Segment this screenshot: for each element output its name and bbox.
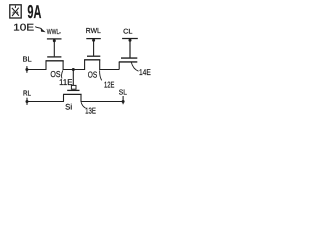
- wire Q2 source lead: [84, 60, 86, 70]
- node CL terminal bar: [122, 38, 138, 40]
- capacitor C1 top plate: [121, 57, 137, 59]
- svg-text:CL: CL: [123, 29, 133, 36]
- wire RL to Q3: [27, 101, 64, 103]
- node RWL junction dot: [92, 39, 95, 42]
- transistor Q3 channel: [63, 93, 82, 95]
- node WWL junction dot: [53, 39, 56, 42]
- transistor Q1 gate bar: [47, 56, 61, 58]
- wire Q1 source lead: [45, 61, 47, 70]
- node BL junction dot: [25, 68, 28, 71]
- transistor Q1 channel: [46, 60, 64, 62]
- transistor Q2 channel: [84, 59, 100, 61]
- node RL junction dot: [26, 100, 29, 103]
- svg-text:BL: BL: [23, 55, 32, 64]
- leader line 12E: [100, 70, 102, 80]
- wire WWL lead: [53, 39, 55, 57]
- wire RL terminal tick: [26, 98, 28, 105]
- node SL junction dot: [122, 100, 125, 103]
- wire capacitor riser: [118, 62, 120, 70]
- wire Q2 to capacitor: [99, 69, 119, 71]
- wire CL lead: [129, 39, 131, 59]
- node WWL terminal bar: [47, 38, 62, 40]
- leader line 10E arrow: [35, 27, 41, 29]
- svg-text:WWL: WWL: [47, 27, 60, 36]
- node gate contact square: [71, 85, 76, 89]
- wire BL terminal tick: [26, 66, 28, 73]
- svg-text:Si: Si: [65, 102, 72, 111]
- leader line 14E: [131, 62, 138, 71]
- svg-text:OS: OS: [88, 69, 98, 79]
- svg-text:12E: 12E: [104, 79, 115, 89]
- svg-text:SL: SL: [119, 87, 127, 96]
- svg-text:RL: RL: [23, 89, 31, 98]
- wire RWL lead: [93, 39, 95, 56]
- wire Q2 drain lead: [99, 60, 101, 70]
- wire BL to Q1: [27, 69, 47, 71]
- svg-text:10E: 10E: [13, 23, 35, 34]
- svg-text:13E: 13E: [85, 105, 96, 115]
- wire storage node vertical: [72, 70, 74, 86]
- leader line 11E: [61, 70, 62, 78]
- svg-text:11E: 11E: [59, 77, 73, 87]
- speck after WWL: [59, 32, 60, 33]
- wire SL terminal tick: [122, 96, 124, 104]
- capacitor C1 bottom plate: [119, 61, 138, 63]
- svg-text:RWL: RWL: [86, 26, 101, 35]
- node storage junction dot: [72, 68, 75, 71]
- wire Q3 to SL: [81, 101, 124, 103]
- transistor Q3 gate bar: [67, 89, 79, 91]
- node RWL terminal bar: [86, 38, 101, 40]
- wire Q3 source lead: [63, 94, 65, 101]
- svg-text:9A: 9A: [27, 1, 41, 22]
- wire Q3 drain lead: [80, 94, 82, 101]
- wire Q1 drain lead: [62, 61, 64, 70]
- leader line 13E: [81, 102, 86, 108]
- wire Q1 to Q2 storage node: [63, 69, 86, 71]
- figure title 図 glyph box: [10, 5, 21, 18]
- svg-text:14E: 14E: [139, 67, 151, 77]
- transistor Q2 gate bar: [87, 55, 100, 57]
- node CL junction dot: [129, 39, 132, 42]
- arrowhead 10E: [41, 28, 46, 32]
